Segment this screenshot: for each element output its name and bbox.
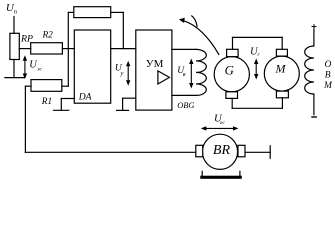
svg-text:в: в <box>183 72 186 78</box>
svg-text:DA: DA <box>78 91 92 102</box>
svg-text:M: M <box>275 62 287 76</box>
svg-text:ос: ос <box>220 120 226 126</box>
svg-text:О: О <box>325 60 332 70</box>
svg-text:зс: зс <box>36 66 42 72</box>
svg-text:В: В <box>325 71 331 81</box>
svg-text:ОВG: ОВG <box>177 101 194 110</box>
svg-text:п: п <box>14 9 17 16</box>
svg-text:G: G <box>225 63 234 77</box>
svg-text:М: М <box>323 81 333 91</box>
svg-text:УМ: УМ <box>146 58 164 70</box>
svg-text:г: г <box>257 51 260 57</box>
svg-text:R2: R2 <box>42 30 54 40</box>
svg-text:RP: RP <box>20 33 33 44</box>
svg-text:R1: R1 <box>41 97 52 107</box>
svg-text:BR: BR <box>213 143 231 158</box>
svg-text:у: у <box>120 70 124 77</box>
